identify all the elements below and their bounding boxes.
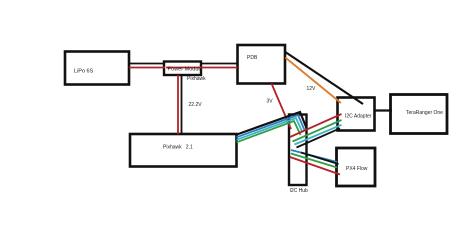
svg-text:22.2V: 22.2V [189, 102, 203, 108]
PX4 Flow box [337, 148, 376, 186]
wire blue Pixhawk to I2C hub (bent) [237, 115, 305, 137]
power module box [164, 62, 201, 76]
svg-text:I2C Hub: I2C Hub [290, 188, 309, 194]
wire green Pixhawk to I2C hub (bent) [237, 121, 301, 142]
wire green I2C hub to PX4 Flow [291, 154, 337, 168]
wire blue I2C hub to PX4 Flow [291, 150, 337, 162]
wire red I2C hub to I2C adapter [290, 114, 342, 137]
TeraRanger One box [391, 95, 448, 134]
I2C Adapter box [338, 98, 375, 131]
battery LiPo 6S box [65, 52, 129, 85]
wire cyan Pixhawk to I2C hub (bent) [237, 118, 303, 140]
wire red power module to PDB (crosses power module box) [166, 67, 238, 69]
svg-text:3V: 3V [267, 99, 274, 105]
svg-text:PDB: PDB [247, 55, 258, 61]
wire cyan I2C hub to I2C adapter [295, 125, 342, 145]
wire red power module down to Pixhawk [177, 75, 179, 134]
Pixhawk 2.1 box [130, 134, 237, 167]
I2C Hub box [289, 115, 307, 186]
svg-text:I2C Adapter: I2C Adapter [345, 114, 372, 120]
wire red I2C hub to PX4 Flow [290, 157, 340, 175]
PDB box [238, 45, 286, 84]
wire black power module down to Pixhawk [181, 75, 183, 134]
svg-text:Pixhawk: Pixhawk [187, 76, 206, 82]
wire black power module to PDB [201, 63, 238, 65]
wire black Pixhawk to I2C hub (bent) [237, 112, 307, 135]
svg-text:TeraRanger One: TeraRanger One [406, 110, 443, 116]
svg-text:PX4 Flow: PX4 Flow [346, 166, 368, 172]
wire red 3V PDB down to I2C hub [272, 84, 292, 130]
wire black LiPo to power module [129, 63, 164, 65]
wire black I2C adapter to TeraRanger One [374, 109, 392, 111]
wire black I2C hub to PX4 Flow [301, 153, 339, 165]
svg-text:Pixhawk 2.1: Pixhawk 2.1 [163, 145, 193, 151]
wire black PDB corner to I2C adapter corner [285, 52, 363, 104]
wire black I2C hub to I2C adapter [297, 128, 341, 147]
wire red LiPo to power module [129, 67, 165, 69]
svg-text:LiPo 6S: LiPo 6S [74, 69, 94, 75]
svg-text:Power Modul: Power Modul [168, 67, 200, 73]
svg-text:12V: 12V [307, 86, 317, 92]
wire green I2C hub to I2C adapter [293, 120, 342, 142]
wire orange 12V PDB to I2C adapter [285, 58, 341, 104]
